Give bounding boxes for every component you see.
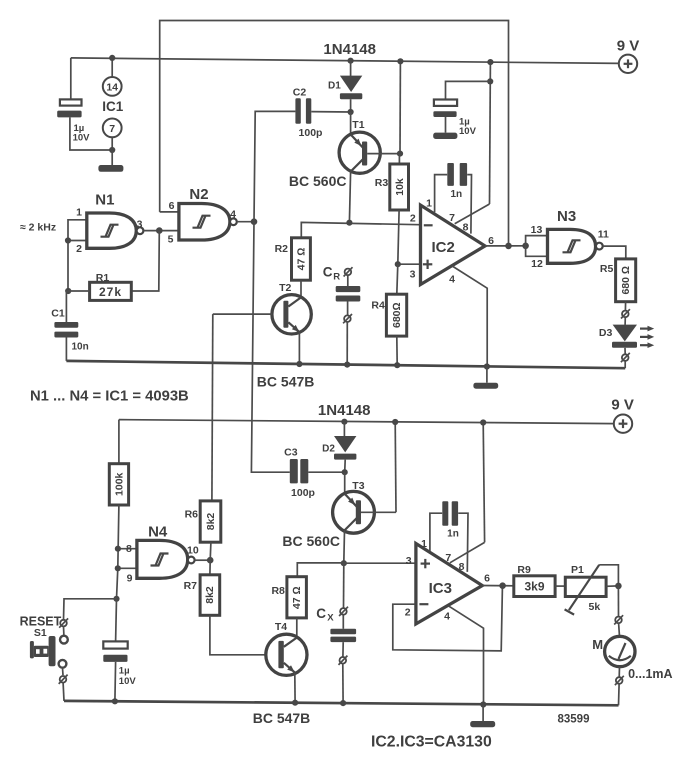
svg-text:5k: 5k [589, 601, 601, 613]
capacitor CX (measured, between terminals) [330, 615, 356, 657]
led D3 [612, 317, 637, 354]
wire tap to 1u cap [446, 81, 491, 99]
svg-text:3: 3 [410, 269, 416, 281]
capacitor C2 100p [295, 98, 350, 124]
svg-text:≈ 2 kHz: ≈ 2 kHz [20, 222, 56, 234]
wire R4 bottom to 0V [396, 336, 398, 365]
svg-text:3k9: 3k9 [524, 580, 544, 594]
svg-text:C1: C1 [51, 308, 65, 320]
node junction T4 emitter on 0V [292, 700, 298, 706]
svg-text:1n: 1n [450, 189, 462, 200]
svg-text:R4: R4 [371, 300, 385, 312]
svg-text:R1: R1 [96, 272, 110, 284]
svg-text:100p: 100p [299, 127, 323, 139]
wire rail left bend down to IC1 decoupling cap [70, 58, 72, 100]
svg-text:1: 1 [76, 206, 82, 218]
svg-text:N1: N1 [95, 192, 114, 209]
capacitor CR (reference, between terminals) [336, 275, 361, 315]
node junction 1u tap [487, 78, 493, 84]
nand gate N4 [137, 540, 195, 578]
node junction T1 base / R3 [397, 151, 403, 157]
svg-text:10: 10 [187, 545, 199, 557]
node junction N4 pin 8 [115, 546, 121, 552]
wire pin 7 diagonal (IC3) [450, 542, 485, 562]
svg-text:R8: R8 [271, 585, 285, 597]
svg-text:M: M [592, 637, 603, 652]
wire N4 output [195, 559, 211, 561]
node junction reset cap on 0V [112, 698, 118, 704]
svg-text:10V: 10V [73, 133, 91, 144]
node junction CR on 0V [344, 362, 350, 368]
svg-text:D2: D2 [322, 444, 335, 455]
svg-text:680Ω: 680Ω [391, 302, 403, 328]
svg-text:83599: 83599 [558, 714, 590, 726]
svg-text:4: 4 [444, 611, 450, 623]
wire rail down to IC2 pin 7 [489, 62, 492, 204]
capacitor 1n (IC3 compensation) [442, 501, 458, 526]
resistor R5 680 Ohm [616, 259, 636, 302]
node junction P1 / meter [615, 583, 622, 590]
node D3 top terminal [621, 309, 630, 318]
node junction rail at T1 base branch [397, 58, 403, 64]
svg-text:6: 6 [169, 200, 175, 212]
node junction N4 pin 9 [115, 565, 121, 571]
svg-text:8k2: 8k2 [204, 586, 216, 604]
node junction R3/R4 divider at pin 3 [395, 261, 401, 267]
node junction rail at D1 [348, 58, 354, 64]
svg-text:11: 11 [598, 229, 609, 241]
svg-text:D1: D1 [328, 81, 341, 92]
wire N2 output [237, 221, 254, 223]
capacitor 1u 10V (reset) [103, 599, 127, 702]
node D3 bottom terminal [621, 353, 630, 362]
node junction N4 output [207, 557, 214, 564]
svg-text:T1: T1 [352, 119, 364, 131]
svg-text:2: 2 [76, 243, 82, 255]
wire R8 top branch [297, 563, 344, 577]
wire D3 bottom to 0V right end [624, 361, 626, 368]
svg-text:10n: 10n [72, 342, 89, 353]
node junction N3 input tie [522, 243, 529, 250]
node S1 top terminal [59, 618, 68, 627]
wire N3 input bracket [526, 236, 548, 257]
capacitor C1 [54, 322, 78, 338]
resistor R2 47 Ohm [292, 238, 311, 280]
svg-text:8k2: 8k2 [205, 513, 217, 531]
wire N1 output to N2 pin 5 [143, 230, 179, 232]
nand gate N2 [179, 204, 237, 241]
wire IC3 pin 2 feedback loop [393, 588, 503, 651]
svg-text:1µ: 1µ [119, 666, 130, 677]
svg-text:2: 2 [410, 213, 416, 225]
svg-text:X: X [327, 612, 334, 623]
node junction rail at T3 base branch [392, 419, 398, 425]
wire rail left bend down to 100k [118, 420, 120, 464]
nand gate N3 [548, 229, 603, 263]
node junction IC2 output / feedback [505, 243, 512, 250]
svg-text:9 V: 9 V [611, 396, 634, 413]
wire 9V top supply rail [71, 58, 619, 64]
wire non-inverting ref line (pin 3 of IC2) [398, 263, 420, 265]
node junction IC3 output [499, 582, 506, 589]
wire N2 pin 6 stub [160, 211, 180, 213]
IC1 pin 14 circle [103, 58, 122, 96]
svg-text:R5: R5 [600, 263, 614, 275]
svg-text:27k: 27k [99, 285, 122, 299]
wire C1 bottom to 0V [65, 338, 67, 361]
node junction rail at IC3 supply [480, 419, 486, 425]
capacitor C3 100p [290, 459, 345, 483]
wire D1 node to T1 emitter [350, 112, 352, 134]
wire P1 node down to meter terminal [617, 586, 619, 617]
wire S1 bottom to 0V [62, 683, 65, 701]
svg-text:IC3: IC3 [429, 580, 452, 597]
svg-text:47 Ω: 47 Ω [291, 586, 303, 609]
wire N1 input column [68, 220, 87, 291]
node junction T3 collector / R8 / pin 3 [341, 560, 347, 566]
wire P1 right terminal [606, 585, 618, 587]
9V terminal top [619, 55, 637, 73]
svg-text:N4: N4 [148, 524, 168, 541]
node junction rail at IC1 [109, 55, 115, 61]
wire junction down to R1 [131, 231, 159, 291]
svg-text:1n: 1n [447, 529, 459, 540]
svg-text:IC2.IC3=CA3130: IC2.IC3=CA3130 [371, 734, 492, 751]
svg-text:1N4148: 1N4148 [318, 402, 371, 419]
wire R8 bottom to T4 collector [296, 618, 298, 638]
svg-text:3: 3 [137, 219, 143, 231]
svg-text:14: 14 [106, 81, 118, 93]
ground IC2 [473, 367, 498, 389]
wire N2 output up to C2 [254, 111, 295, 221]
wire P1 wiper to right terminal [599, 565, 618, 586]
svg-text:D3: D3 [599, 327, 613, 339]
svg-text:IC1: IC1 [102, 99, 124, 114]
svg-text:T3: T3 [352, 480, 364, 492]
svg-text:4: 4 [449, 273, 455, 285]
meter M 0...1mA [605, 636, 635, 666]
svg-text:IC2: IC2 [432, 239, 455, 256]
resistor R7 8k2 [200, 575, 220, 616]
svg-text:3: 3 [406, 555, 412, 567]
capacitor 1u 10V (IC1 decoupling) [57, 99, 81, 117]
wire meter terminal to 0V right end [618, 684, 621, 706]
svg-text:R2: R2 [275, 243, 289, 255]
wire 0V line top section [66, 361, 625, 368]
led D3 light arrows [640, 326, 654, 348]
svg-text:8: 8 [459, 561, 465, 573]
node junction ramp / pin2 [346, 220, 352, 226]
node junction N2 output [251, 218, 258, 225]
wire CX bottom to 0V [342, 664, 344, 704]
wire N2 output down to C3 (bottom half) [251, 222, 289, 473]
nand gate N1 [87, 213, 144, 248]
ground below 1u cap [433, 133, 457, 139]
svg-text:10V: 10V [119, 676, 137, 687]
svg-text:6: 6 [484, 573, 490, 585]
wire rail down to T3 base [394, 422, 397, 512]
svg-text:10V: 10V [459, 126, 477, 137]
ground IC3 [470, 705, 495, 728]
svg-text:BC 560C: BC 560C [289, 173, 347, 189]
svg-text:N2: N2 [189, 186, 208, 203]
svg-text:7: 7 [445, 552, 451, 564]
wire T4 emitter to 0V [294, 673, 296, 703]
wire N1 pin 2 stub [68, 240, 87, 242]
wire rail down to IC3 pin 7 [483, 423, 484, 543]
wire 1n right to pin 8 [467, 175, 471, 234]
wire S1 branch [64, 599, 117, 620]
capacitor 1n (IC2 compensation) [447, 163, 467, 186]
resistor R6 8k2 [200, 501, 221, 542]
node junction pin4 on 0V [484, 363, 490, 369]
wire pin 1 to 1n left (IC3) [430, 513, 442, 552]
svg-text:1N4148: 1N4148 [323, 41, 376, 58]
node junction IC1 ground [109, 147, 115, 153]
IC1 pin 7 circle [103, 119, 122, 151]
wire T1 collector down to pin2 line [349, 171, 350, 222]
node junction T2 emitter on 0V [296, 361, 302, 367]
wire CR bottom to 0V [346, 322, 348, 365]
node junction D1 cathode / C2 / T1 emitter [348, 109, 354, 115]
wire T2 emitter to 0V [298, 332, 300, 364]
resistor R9 3k9 [514, 576, 555, 597]
node junction R1 left / C1 [65, 288, 71, 294]
resistor R1 [90, 282, 132, 300]
resistor R4 680 Ohm [386, 264, 406, 336]
svg-text:7: 7 [109, 123, 115, 135]
wire D2 node to T3 emitter [344, 472, 346, 494]
node meter bottom terminal [615, 676, 624, 685]
wire R7 bottom to T4 base [210, 615, 266, 655]
wire rail down to T1 base [399, 61, 401, 153]
label CR [323, 265, 341, 283]
svg-text:8: 8 [126, 543, 132, 555]
svg-text:47 Ω: 47 Ω [296, 248, 308, 271]
wire N3 output to R5 [603, 246, 626, 259]
wire IC3 pin 3 input line [344, 562, 415, 564]
ground IC1 [98, 150, 123, 172]
svg-text:P1: P1 [571, 564, 584, 576]
svg-text:1: 1 [421, 538, 427, 550]
wire N4 pin 8 stub [118, 548, 137, 550]
svg-text:C: C [323, 265, 333, 280]
wire T2 base over to bottom half (to R6) [211, 314, 214, 501]
svg-text:1: 1 [426, 198, 432, 210]
label CX [316, 606, 334, 623]
wire N4 pin 9 stub [118, 567, 137, 569]
wire IC2 output to N3 inputs [485, 245, 526, 247]
svg-text:100k: 100k [113, 472, 125, 496]
op-amp IC2 CA3130 [421, 205, 486, 284]
node junction R4 on 0V [394, 362, 400, 368]
svg-text:0...1mA: 0...1mA [628, 667, 672, 681]
wire IC1 cap bottom to ground node [70, 117, 112, 150]
node S1 bottom terminal [59, 675, 68, 684]
node CX bottom terminal [339, 656, 348, 665]
svg-text:9: 9 [127, 573, 133, 585]
node junction D2 cathode / C3 / T3 emitter [342, 469, 348, 475]
wire 9V bottom supply rail [119, 420, 614, 424]
svg-text:100p: 100p [291, 487, 315, 499]
svg-text:4: 4 [230, 208, 236, 220]
wire R5 bottom to terminal [624, 302, 626, 311]
resistor R3 10k [390, 154, 409, 210]
svg-text:12: 12 [531, 258, 543, 270]
node meter top terminal [614, 615, 623, 624]
wire T3 collector down to pin3 node [343, 530, 346, 563]
svg-text:BC 560C: BC 560C [282, 533, 340, 549]
wire column down to C1 [66, 291, 68, 322]
wire N4 output node down to R7 [209, 560, 211, 575]
svg-text:9 V: 9 V [617, 37, 640, 54]
transistor T4 BC547B [266, 634, 307, 675]
svg-text:8: 8 [463, 222, 469, 234]
diode D2 1N4148 [334, 422, 356, 473]
wire inverting input line (pin 2 of IC2) [301, 222, 419, 237]
resistor 100k [109, 464, 128, 505]
wire 1n right to pin 8 (IC3) [458, 513, 468, 572]
svg-text:R6: R6 [185, 508, 199, 520]
svg-text:2: 2 [405, 607, 411, 619]
svg-text:7: 7 [449, 212, 455, 224]
wire feedback top line (IC2 output to N2 pin 6) [160, 21, 509, 246]
svg-text:BC 547B: BC 547B [257, 373, 315, 389]
capacitor 1u 10V (IC2 supply) [433, 100, 457, 133]
wire pin 7 diagonal to supply [455, 204, 490, 224]
wire pin 1 to 1n left [435, 175, 448, 213]
wire R6 bottom to N4 output node [209, 542, 212, 560]
node junction rail at IC2 supply [487, 59, 493, 65]
svg-text:R3: R3 [375, 177, 389, 189]
svg-text:680 Ω: 680 Ω [620, 266, 632, 295]
svg-text:R: R [333, 272, 340, 283]
diode D1 1N4148 [340, 61, 362, 112]
wire IC3 output to R9 [482, 585, 514, 587]
wire R2 bottom to T2 collector [300, 280, 302, 297]
9V terminal bottom [614, 415, 632, 433]
svg-text:C3: C3 [284, 447, 298, 459]
svg-text:S1: S1 [34, 627, 47, 639]
svg-text:R7: R7 [184, 580, 198, 592]
switch S1 (push button) [30, 626, 68, 675]
node junction CX on 0V [340, 700, 346, 706]
node junction IC3 pin4 on 0V [480, 701, 486, 707]
svg-text:N3: N3 [557, 208, 576, 225]
node junction N1 output [156, 227, 163, 234]
potentiometer P1 5k [565, 565, 607, 615]
node CX top terminal [339, 563, 348, 616]
wire meter bottom to terminal [618, 667, 620, 678]
node junction S1 branch [113, 596, 119, 602]
transistor T1 BC560C [339, 132, 400, 173]
node CR bottom terminal [343, 314, 352, 323]
svg-text:BC 547B: BC 547B [253, 710, 311, 726]
wire R3 bottom down across pin2 line to pin3 node [398, 210, 399, 264]
node CR top terminal [344, 267, 353, 276]
wire R1 left to column [68, 290, 90, 292]
svg-text:T2: T2 [279, 282, 291, 294]
node junction N1 pin2 tie [65, 237, 71, 243]
svg-text:C2: C2 [293, 87, 307, 99]
wire 0V line bottom section [64, 701, 619, 705]
svg-text:C: C [316, 606, 326, 621]
wire pin 4 to ground [452, 266, 487, 367]
transistor T3 BC560C [333, 491, 396, 533]
svg-text:5: 5 [168, 233, 174, 245]
op-amp IC3 CA3130 [416, 544, 482, 624]
wire terminal to meter [618, 623, 621, 636]
transistor T2 BC547B [213, 295, 311, 334]
svg-text:T4: T4 [275, 621, 287, 633]
wire R9 to P1 [555, 585, 565, 587]
svg-text:13: 13 [531, 224, 543, 236]
svg-text:10k: 10k [394, 178, 406, 196]
node junction rail at D2 [341, 419, 347, 425]
svg-text:R9: R9 [517, 564, 531, 576]
svg-text:N1 ... N4 = IC1 = 4093B: N1 ... N4 = IC1 = 4093B [30, 389, 189, 405]
resistor R8 47 Ohm [287, 577, 307, 618]
wire pin 4 to ground (IC3) [449, 606, 484, 704]
wire 100k bottom to N4 inputs [117, 505, 119, 599]
